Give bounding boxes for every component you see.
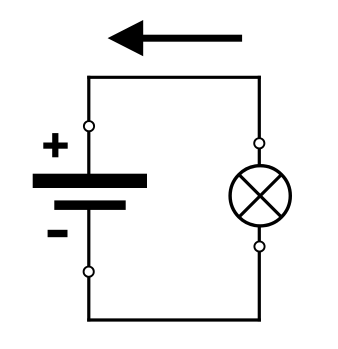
wire top (from battery branch to lamp branch) xyxy=(87,76,261,79)
wire left vertical lower (battery - to node) xyxy=(87,207,90,322)
node terminal upper-left xyxy=(84,121,94,131)
label - (negative terminal) xyxy=(48,230,68,237)
lamp cross (X) xyxy=(239,175,282,218)
wire bottom xyxy=(87,318,261,321)
node terminal upper-right xyxy=(254,138,264,148)
current direction arrow (pointing left) xyxy=(108,20,243,56)
lamp (circle symbol) xyxy=(230,166,290,226)
node terminal lower-right xyxy=(254,241,264,251)
label + (positive terminal) xyxy=(43,133,67,157)
node terminal lower-left xyxy=(84,267,94,277)
battery negative plate (short bar) xyxy=(54,200,125,210)
wire left vertical upper (node to battery +) xyxy=(87,76,90,176)
battery positive plate (long bar) xyxy=(33,174,147,188)
wire right vertical (through lamp) xyxy=(258,76,261,322)
